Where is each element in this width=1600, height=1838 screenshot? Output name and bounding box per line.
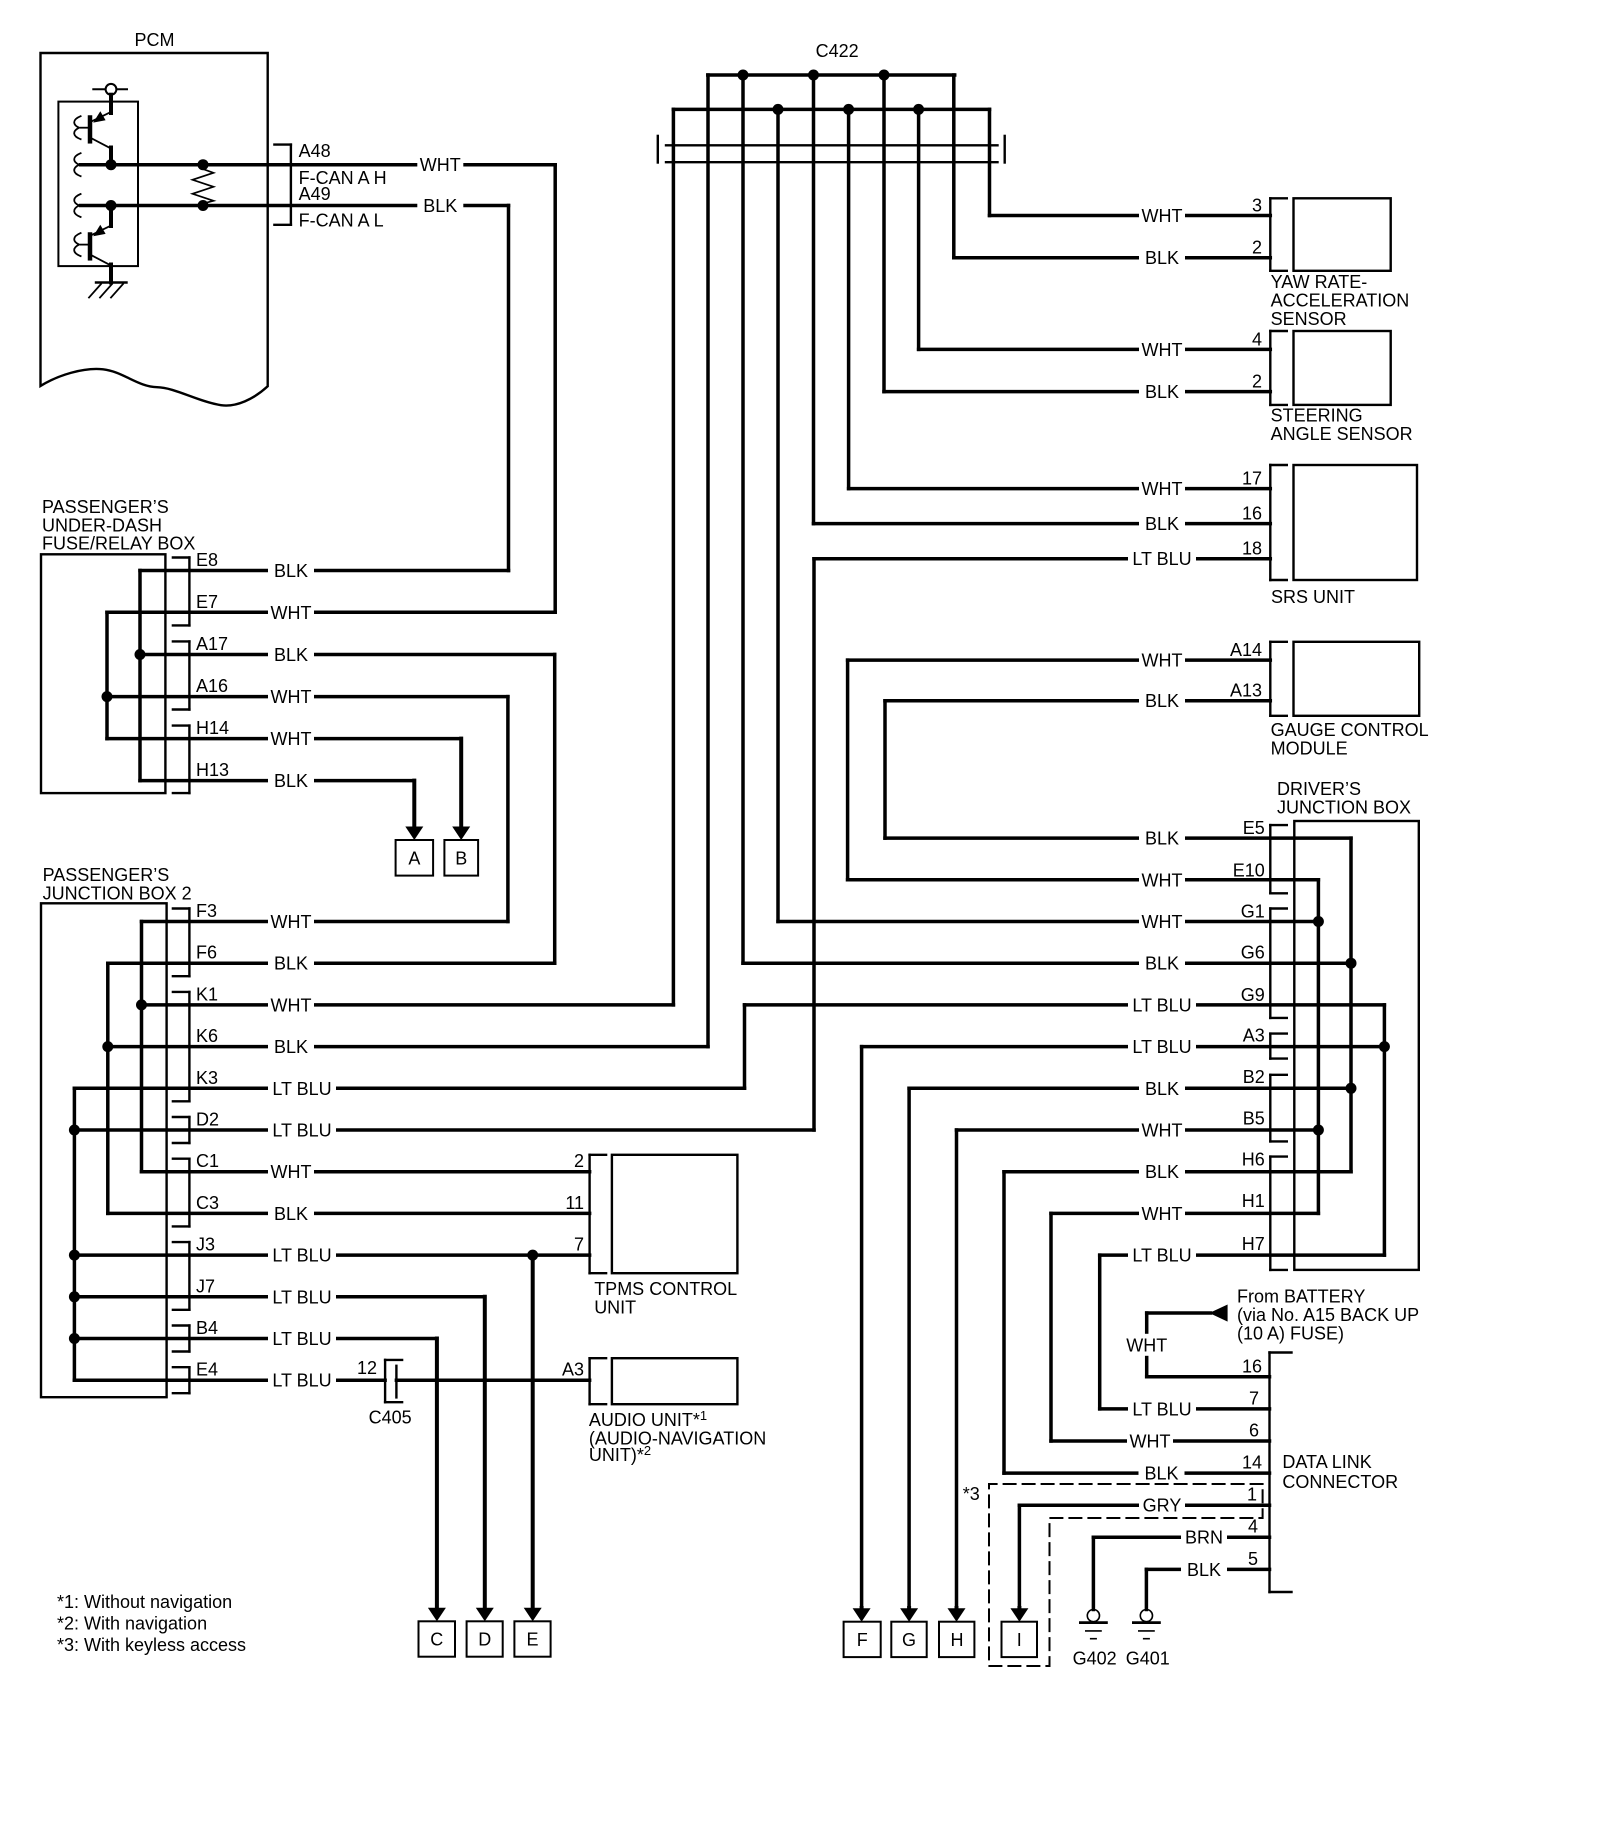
wire SRS pin 17 WHT — [849, 487, 1271, 491]
node bus A / B5 — [1313, 1125, 1324, 1136]
label WHT (DLC 6) — [1127, 1430, 1173, 1452]
svg-text:E8: E8 — [196, 550, 218, 570]
svg-text:G: G — [902, 1630, 916, 1650]
arrow A3 net to F — [860, 1608, 864, 1610]
svg-text:WHT: WHT — [1142, 206, 1183, 226]
svg-text:LT BLU: LT BLU — [1132, 995, 1191, 1015]
svg-text:BLK: BLK — [274, 561, 308, 581]
svg-text:16: 16 — [1242, 1356, 1262, 1376]
label WHT (G1) — [1139, 911, 1185, 933]
svg-text:WHT: WHT — [1142, 479, 1183, 499]
transistor Q2 (lower, PNP) — [88, 235, 93, 259]
wire H1 WHT — [1051, 1212, 1318, 1216]
junction box 2 internal bus 1 — [140, 922, 144, 1172]
label LT BLU (A3) — [1128, 1036, 1196, 1058]
svg-text:BLK: BLK — [274, 1037, 308, 1057]
svg-text:BLK: BLK — [1187, 1560, 1221, 1580]
wire gauge A14 WHT — [848, 658, 1271, 662]
terminal box H — [939, 1622, 974, 1657]
label WHT (battery feed) — [1124, 1334, 1170, 1356]
transistor Q1 (upper, PNP) — [88, 118, 93, 142]
fuse box internal bus 1 — [138, 571, 142, 781]
svg-text:BLK: BLK — [1145, 382, 1179, 402]
svg-text:CONNECTOR: CONNECTOR — [1282, 1472, 1398, 1492]
svg-text:DATA LINK: DATA LINK — [1282, 1452, 1371, 1472]
wire C422 branch 4 (to G1) — [776, 109, 780, 921]
svg-text:H: H — [951, 1630, 964, 1650]
label WHT (A16) — [268, 686, 314, 708]
junction box 2 body — [41, 903, 167, 1397]
svg-text:F: F — [857, 1630, 868, 1650]
label BLK (G6) — [1139, 952, 1185, 974]
junction box 2 bracket F3/F6 — [188, 909, 190, 977]
svg-text:H6: H6 — [1242, 1150, 1265, 1170]
node bus B / G6 — [1346, 958, 1357, 969]
node J3 / E-branch — [527, 1250, 538, 1261]
driver's box bracket A3 — [1269, 1034, 1271, 1059]
svg-text:A3: A3 — [1243, 1026, 1265, 1046]
wire E4 LT BLU — [74, 1378, 385, 1382]
svg-text:WHT: WHT — [1142, 1204, 1183, 1224]
label BLK (H6) — [1139, 1161, 1185, 1183]
node bus3 / J7 — [69, 1291, 80, 1302]
connector bracket SRS unit — [1269, 465, 1271, 580]
wire B2 BLK vertical to G — [907, 1088, 911, 1608]
svg-text:2: 2 — [1252, 238, 1262, 258]
label BLK (E8) — [268, 560, 314, 582]
wire SRS pin 16 BLK — [814, 522, 1271, 526]
wire G9 LT BLU — [745, 1003, 1385, 1007]
node bus B / B2 — [1346, 1083, 1357, 1094]
svg-text:BLK: BLK — [1144, 1464, 1178, 1484]
svg-text:ACCELERATION: ACCELERATION — [1271, 291, 1410, 311]
svg-text:BLK: BLK — [1145, 691, 1179, 711]
svg-text:MODULE: MODULE — [1271, 739, 1348, 759]
arrow J3 to E — [531, 1255, 535, 1609]
label BLK (SRS 16) — [1139, 513, 1185, 535]
svg-text:BLK: BLK — [274, 1204, 308, 1224]
connector bracket gauge control module — [1269, 642, 1271, 716]
svg-text:12: 12 — [357, 1358, 377, 1378]
wire BRN vertical to ground G402 — [1092, 1537, 1096, 1609]
arrow B5 net to H — [955, 1608, 959, 1610]
wire BLK vertical to ground G401 — [1145, 1569, 1149, 1609]
svg-text:18: 18 — [1242, 539, 1262, 559]
svg-text:BLK: BLK — [1145, 514, 1179, 534]
svg-text:*3: With keyless access: *3: With keyless access — [57, 1635, 246, 1655]
node bus A / G1 — [1313, 916, 1324, 927]
wire yaw pin 3 WHT — [990, 214, 1271, 218]
svg-text:G401: G401 — [1126, 1649, 1170, 1669]
svg-text:A3: A3 — [562, 1360, 584, 1380]
wire Q2 emitter to ground — [109, 265, 113, 283]
svg-text:(via No. A15 BACK UP: (via No. A15 BACK UP — [1237, 1305, 1419, 1325]
terminal box F — [844, 1622, 881, 1657]
junction box 2 internal bus 3 — [73, 1088, 77, 1380]
label LT BLU (K3) — [268, 1077, 336, 1099]
wire H14 WHT — [107, 737, 461, 741]
wire K3 LT BLU — [74, 1087, 744, 1091]
terminal box C — [419, 1621, 456, 1656]
svg-text:E7: E7 — [196, 592, 218, 612]
svg-text:A48: A48 — [299, 141, 331, 161]
label WHT (E10) — [1139, 869, 1185, 891]
svg-text:A13: A13 — [1230, 681, 1262, 701]
wire H6 BLK — [1004, 1170, 1351, 1174]
fuse box bracket A17/A16 — [188, 641, 190, 709]
node bus3 / D2 — [69, 1125, 80, 1136]
svg-text:BLK: BLK — [274, 954, 308, 974]
label WHT on A48 wire — [417, 154, 463, 176]
svg-text:E: E — [526, 1630, 538, 1650]
svg-text:YAW RATE-: YAW RATE- — [1271, 272, 1368, 292]
driver's box internal bus B — [1349, 838, 1353, 1172]
node bus2 / A16 — [102, 691, 113, 702]
svg-text:E10: E10 — [1233, 860, 1265, 880]
node bus C / A3 — [1379, 1041, 1390, 1052]
svg-text:WHT: WHT — [271, 729, 312, 749]
CAN bus splice lower rail — [673, 108, 989, 112]
label BLK (K6) — [268, 1036, 314, 1058]
wire gauge A13 BLK — [885, 699, 1270, 703]
svg-text:ANGLE SENSOR: ANGLE SENSOR — [1271, 424, 1413, 444]
driver's box internal bus A — [1317, 880, 1321, 1214]
node resistor top junction — [198, 159, 209, 170]
svg-text:PCM: PCM — [135, 30, 175, 50]
svg-text:G1: G1 — [1241, 902, 1265, 922]
svg-text:*3: *3 — [963, 1484, 980, 1504]
node splice dots lower rail — [773, 104, 784, 115]
resistor (CAN termination) — [193, 165, 214, 206]
svg-text:UNDER-DASH: UNDER-DASH — [42, 516, 162, 536]
label LT BLU (J7) — [268, 1286, 336, 1308]
label LT BLU (B4) — [268, 1328, 336, 1350]
svg-text:A14: A14 — [1230, 640, 1262, 660]
svg-text:WHT: WHT — [1142, 912, 1183, 932]
wire E8 BLK — [140, 569, 509, 573]
driver's box bracket H6/H1/H7 — [1269, 1157, 1271, 1270]
Q1 base break squiggle — [74, 116, 80, 139]
svg-text:E5: E5 — [1243, 818, 1265, 838]
wire E5 BLK — [885, 836, 1351, 840]
wire DLC pin 1 GRY — [1019, 1503, 1269, 1507]
wire H7 LT BLU — [1100, 1253, 1385, 1257]
svg-text:AUDIO UNIT*1: AUDIO UNIT*1 — [589, 1408, 707, 1430]
junction box 2 internal bus 2 — [106, 963, 110, 1213]
driver's box bracket G1/G6/G9 — [1269, 909, 1271, 1018]
label WHT (K1) — [268, 994, 314, 1016]
label BLK (gauge A13) — [1139, 690, 1185, 712]
wire C422 branch 9 (to yaw 2) — [952, 75, 956, 258]
svg-text:B: B — [455, 848, 467, 868]
label WHT (SRS 17) — [1139, 478, 1185, 500]
wire B5 WHT vertical to H — [955, 1130, 959, 1608]
svg-text:WHT: WHT — [1126, 1335, 1167, 1355]
CAN bus splice upper rail — [708, 73, 955, 77]
arrow H13 to A — [412, 781, 416, 828]
svg-text:BLK: BLK — [274, 645, 308, 665]
wire steering pin 2 BLK — [884, 390, 1270, 394]
svg-text:BLK: BLK — [1145, 829, 1179, 849]
connector C405 symbol — [384, 1360, 386, 1402]
label BLK (F6) — [268, 952, 314, 974]
F-CAN A H break squiggle — [74, 153, 80, 176]
connector bracket yaw sensor — [1269, 198, 1271, 270]
label BLK (E5) — [1139, 827, 1185, 849]
svg-text:LT BLU: LT BLU — [272, 1329, 331, 1349]
wire F-CAN A L inside PCM (A49) — [81, 204, 509, 208]
terminal box I — [1002, 1622, 1038, 1657]
svg-text:WHT: WHT — [1130, 1432, 1171, 1452]
wire battery feed WHT vertical to DLC 16 — [1145, 1313, 1149, 1377]
svg-text:From BATTERY: From BATTERY — [1237, 1287, 1365, 1307]
connector bracket audio unit — [588, 1358, 590, 1404]
label BLK (DLC 14) — [1139, 1462, 1185, 1484]
ground (PCM internal) — [96, 281, 127, 283]
svg-text:BRN: BRN — [1185, 1528, 1223, 1548]
Q2 base break squiggle — [74, 233, 80, 256]
svg-text:I: I — [1017, 1630, 1022, 1650]
TPMS control unit box — [612, 1155, 738, 1273]
wire C422 branch 8 (to steering 4) — [917, 109, 921, 349]
svg-text:WHT: WHT — [420, 155, 461, 175]
svg-text:LT BLU: LT BLU — [1132, 1037, 1191, 1057]
svg-text:16: 16 — [1242, 504, 1262, 524]
label BLK on A49 wire — [417, 195, 463, 217]
svg-text:BLK: BLK — [1145, 1162, 1179, 1182]
node bus1 / A17 — [135, 649, 146, 660]
svg-text:7: 7 — [1249, 1388, 1259, 1408]
svg-text:BLK: BLK — [423, 196, 457, 216]
fuse box bracket E8/E7 — [188, 558, 190, 626]
svg-text:B4: B4 — [196, 1318, 218, 1338]
svg-text:WHT: WHT — [1142, 340, 1183, 360]
svg-text:14: 14 — [1242, 1453, 1262, 1473]
svg-text:F3: F3 — [196, 901, 217, 921]
svg-text:STEERING: STEERING — [1271, 406, 1363, 426]
svg-text:H7: H7 — [1242, 1234, 1265, 1254]
terminal box G — [891, 1622, 926, 1657]
wire A16 WHT — [107, 695, 508, 699]
svg-text:WHT: WHT — [271, 603, 312, 623]
svg-text:BLK: BLK — [1145, 1079, 1179, 1099]
svg-text:LT BLU: LT BLU — [272, 1079, 331, 1099]
svg-text:LT BLU: LT BLU — [272, 1371, 331, 1391]
label BLK (H13) — [268, 770, 314, 792]
svg-text:JUNCTION BOX: JUNCTION BOX — [1277, 798, 1411, 818]
svg-text:4: 4 — [1252, 329, 1262, 349]
svg-text:JUNCTION BOX 2: JUNCTION BOX 2 — [43, 883, 192, 903]
wire F3 WHT — [142, 920, 508, 924]
F-CAN A L break squiggle — [74, 194, 80, 217]
label LT BLU (G9) — [1128, 994, 1196, 1016]
svg-text:DRIVER’S: DRIVER’S — [1277, 779, 1361, 799]
label BLK (DLC 5) — [1181, 1558, 1227, 1580]
svg-text:B5: B5 — [1243, 1108, 1265, 1128]
gauge control module box — [1294, 642, 1420, 716]
label WHT (E7) — [268, 601, 314, 623]
fuse/relay box body — [41, 554, 165, 793]
svg-text:D: D — [478, 1630, 491, 1650]
terminal box B — [444, 840, 478, 876]
svg-text:G6: G6 — [1241, 943, 1265, 963]
steering angle sensor box — [1294, 331, 1391, 405]
label WHT (H14) — [268, 728, 314, 750]
svg-text:G402: G402 — [1073, 1649, 1117, 1669]
label WHT (yaw 3) — [1139, 205, 1185, 227]
wire A13 BLK vertical to E5 — [883, 701, 887, 838]
node bus1 / K1 — [136, 999, 147, 1010]
wire F-CAN A H inside PCM (A48) — [81, 163, 556, 167]
svg-text:*1: Without navigation: *1: Without navigation — [57, 1592, 232, 1612]
svg-text:4: 4 — [1248, 1517, 1258, 1537]
wire battery feed horizontal — [1147, 1311, 1211, 1315]
svg-text:LT BLU: LT BLU — [272, 1287, 331, 1307]
wire supply to transistor Q1 — [109, 95, 113, 113]
svg-text:C: C — [430, 1630, 443, 1650]
svg-text:H13: H13 — [196, 760, 229, 780]
svg-text:WHT: WHT — [271, 995, 312, 1015]
label LT BLU (E4) — [268, 1369, 336, 1391]
wire A17 BLK — [140, 653, 555, 657]
svg-text:GRY: GRY — [1143, 1496, 1182, 1516]
svg-text:K3: K3 — [196, 1068, 218, 1088]
junction box 2 bracket B4 — [188, 1326, 190, 1352]
svg-text:F6: F6 — [196, 943, 217, 963]
svg-text:1: 1 — [1247, 1485, 1257, 1505]
wire A3 LT BLU — [862, 1045, 1385, 1049]
svg-text:UNIT)*2: UNIT)*2 — [589, 1443, 651, 1465]
svg-text:A17: A17 — [196, 634, 228, 654]
svg-text:C3: C3 — [196, 1193, 219, 1213]
svg-text:C1: C1 — [196, 1151, 219, 1171]
driver's box internal bus C — [1383, 1005, 1387, 1255]
svg-text:H1: H1 — [1242, 1191, 1265, 1211]
wire C422 branch 5 (to SRS 16) — [812, 75, 816, 524]
battery feed arrow — [1209, 1305, 1227, 1322]
label WHT (B5) — [1139, 1119, 1185, 1141]
svg-text:SRS UNIT: SRS UNIT — [1271, 587, 1355, 607]
node bus3 / J3 — [69, 1250, 80, 1261]
label WHT (gauge A14) — [1139, 649, 1185, 671]
svg-text:PASSENGER’S: PASSENGER’S — [43, 865, 170, 885]
svg-text:WHT: WHT — [271, 687, 312, 707]
driver's box bracket B2/B5 — [1269, 1075, 1271, 1142]
junction box 2 bracket E4 — [188, 1367, 190, 1393]
fuse box internal bus 2 — [105, 612, 109, 738]
arrow J7 to D — [483, 1297, 487, 1610]
svg-text:2: 2 — [1252, 372, 1262, 392]
wire DLC pin 7 LT BLU — [1100, 1407, 1270, 1411]
SRS unit box — [1294, 465, 1418, 580]
wire E10 WHT — [848, 878, 1319, 882]
label BLK (A17) — [268, 644, 314, 666]
wire C422 branch 6 (to SRS 17) — [847, 109, 851, 488]
svg-text:C422: C422 — [816, 41, 859, 61]
wire A16 WHT vertical to F3 — [506, 697, 510, 922]
label WHT (C1) — [268, 1161, 314, 1183]
arrow H14 to B — [459, 739, 463, 828]
wire A48 WHT vertical to E7 — [553, 165, 557, 613]
svg-text:H14: H14 — [196, 718, 229, 738]
svg-text:LT BLU: LT BLU — [272, 1121, 331, 1141]
PCM box (torn bottom edge) — [41, 53, 268, 406]
svg-text:PASSENGER’S: PASSENGER’S — [42, 497, 169, 517]
wire G9/K3 link vertical — [743, 1005, 747, 1088]
svg-text:G9: G9 — [1241, 985, 1265, 1005]
svg-text:2: 2 — [574, 1151, 584, 1171]
wire K1 WHT — [142, 1003, 674, 1007]
dashed outline *3 (with keyless access) — [989, 1484, 1263, 1666]
svg-text:(10 A) FUSE): (10 A) FUSE) — [1237, 1324, 1344, 1344]
wire A14 WHT vertical to E10 — [846, 660, 850, 880]
svg-text:WHT: WHT — [271, 1162, 312, 1182]
svg-text:LT BLU: LT BLU — [1132, 549, 1191, 569]
arrow B2 net to G — [907, 1608, 911, 1610]
svg-text:GAUGE CONTROL: GAUGE CONTROL — [1271, 720, 1429, 740]
svg-text:WHT: WHT — [1142, 651, 1183, 671]
connector C422 body — [666, 144, 998, 146]
wire A17 BLK vertical to F6 — [553, 655, 557, 964]
node bus2 / K6 — [102, 1041, 113, 1052]
ground G401 — [1140, 1610, 1152, 1622]
wire G1 WHT — [778, 920, 1318, 924]
wire A49 BLK vertical to E8 — [507, 206, 511, 571]
PCM inner driver block — [58, 102, 138, 267]
wire B4 LT BLU — [74, 1337, 437, 1341]
wire SRS pin 18 LT BLU — [814, 557, 1270, 561]
wire steering pin 4 WHT — [919, 348, 1271, 352]
wire DLC pin 16 — [1147, 1375, 1270, 1379]
label BLK (C3) — [268, 1202, 314, 1224]
svg-text:11: 11 — [565, 1193, 584, 1213]
node Q1/bus junction — [106, 159, 117, 170]
svg-text:D2: D2 — [196, 1110, 219, 1130]
wire K6 BLK — [108, 1045, 708, 1049]
svg-text:UNIT: UNIT — [594, 1298, 636, 1318]
wire yaw pin 2 BLK — [954, 256, 1271, 260]
node bus3 / B4 — [69, 1333, 80, 1344]
label LT BLU (DLC 7) — [1128, 1398, 1196, 1420]
svg-text:17: 17 — [1242, 469, 1262, 489]
label LT BLU (H7) — [1128, 1244, 1196, 1266]
junction box 2 bracket C1/C3 — [188, 1159, 190, 1227]
connector bracket TPMS — [588, 1155, 590, 1273]
wire H13 BLK — [140, 779, 414, 783]
label BLK (yaw 2) — [1139, 247, 1185, 269]
svg-text:6: 6 — [1249, 1421, 1259, 1441]
wire GRY vertical to I — [1018, 1505, 1022, 1608]
svg-text:E4: E4 — [196, 1360, 218, 1380]
terminal box A — [396, 840, 434, 876]
label BLK (B2) — [1139, 1077, 1185, 1099]
wire C422 branch 1 (to K1) — [672, 109, 676, 1005]
wire F6 BLK — [108, 961, 555, 965]
wire DLC pin 6 WHT — [1051, 1439, 1270, 1443]
svg-text:WHT: WHT — [1142, 1121, 1183, 1141]
wire H1 WHT vertical to DLC 6 — [1049, 1213, 1053, 1441]
wire J7 LT BLU — [74, 1295, 484, 1299]
label WHT (F3) — [268, 911, 314, 933]
wire G6 BLK — [743, 961, 1351, 965]
ground G402 — [1087, 1610, 1099, 1622]
arrow B4 to C — [435, 1339, 439, 1610]
wire C3 BLK — [108, 1212, 590, 1216]
svg-text:K1: K1 — [196, 984, 218, 1004]
wire C422 branch 7 (to steering 2) — [882, 75, 886, 392]
wire DLC pin 4 BRN — [1093, 1535, 1269, 1539]
PCM pin bracket A48/A49 — [290, 145, 292, 225]
